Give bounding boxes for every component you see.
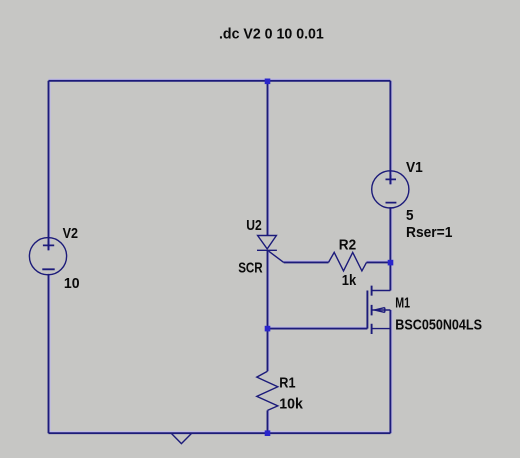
wire top rail halo xyxy=(49,78,391,80)
svg-text:M1: M1 xyxy=(395,294,410,311)
wire bottom rail halo xyxy=(49,431,391,433)
wire gate net halo xyxy=(268,261,391,327)
svg-text:1k: 1k xyxy=(342,272,357,289)
wire gate horizontal xyxy=(268,328,368,330)
wire SCR gate to R2 xyxy=(284,261,329,263)
svg-text:R2: R2 xyxy=(339,237,356,254)
wire middle branch halo xyxy=(268,81,270,433)
MOSFET M1 xyxy=(367,286,390,334)
svg-text:Rser=1: Rser=1 xyxy=(406,224,452,241)
node junction right xyxy=(388,260,394,266)
wire bottom rail xyxy=(49,432,391,434)
resistor R2 xyxy=(329,252,367,271)
svg-text:V2: V2 xyxy=(63,225,78,242)
wire right rail halo xyxy=(391,81,393,433)
node junction bottom xyxy=(265,430,271,436)
voltage source V2 xyxy=(29,238,66,275)
SCR U2 xyxy=(257,236,284,263)
wire middle upper xyxy=(267,81,269,236)
voltage source V1 xyxy=(372,171,409,208)
svg-text:R1: R1 xyxy=(279,374,295,391)
wire right rail upper xyxy=(389,81,391,184)
resistor R1 xyxy=(257,371,278,410)
wire left rail upper xyxy=(48,81,50,251)
wire right rail middle xyxy=(389,207,391,290)
node junction top xyxy=(265,79,271,85)
wire left rail lower xyxy=(48,274,50,433)
svg-text:5: 5 xyxy=(406,207,414,224)
svg-text:.dc V2 0 10 0.01: .dc V2 0 10 0.01 xyxy=(219,26,324,43)
svg-text:10k: 10k xyxy=(279,395,303,412)
node junction gate xyxy=(265,326,271,332)
ground xyxy=(171,433,192,443)
svg-text:V1: V1 xyxy=(406,159,423,176)
wire R2 to right rail xyxy=(367,261,391,263)
svg-text:BSC050N04LS: BSC050N04LS xyxy=(395,317,482,334)
svg-text:U2: U2 xyxy=(246,217,261,234)
wire top rail xyxy=(49,80,391,82)
svg-text:SCR: SCR xyxy=(238,259,263,276)
wire middle lower xyxy=(267,250,269,371)
wire R1 bottom lead xyxy=(267,410,269,433)
svg-text:10: 10 xyxy=(64,275,80,292)
wire right rail lower xyxy=(389,310,391,433)
wire left rail halo xyxy=(49,81,51,433)
